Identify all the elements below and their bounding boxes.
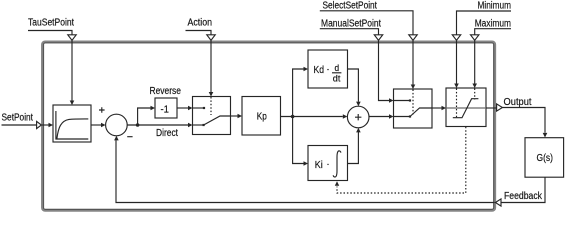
wire saturation to output port — [486, 107, 496, 109]
value Kd — [314, 65, 325, 76]
input port TauSetPoint — [68, 35, 76, 41]
svg-text:Output: Output — [504, 97, 532, 108]
wire Maximum drop — [474, 41, 476, 84]
wire filter to sum1 — [91, 124, 101, 126]
Kd fraction numerator d — [335, 63, 340, 73]
output port Output — [497, 104, 503, 111]
wire Minimum drop — [456, 41, 458, 84]
Kd dot operator — [327, 69, 328, 70]
svg-text:Minimum: Minimum — [478, 1, 512, 12]
wire -1 to switch1 — [177, 107, 188, 109]
block gain Kp — [242, 97, 281, 136]
switch2 lower contact tick — [409, 115, 411, 117]
svg-text:SelectSetPoint: SelectSetPoint — [323, 1, 378, 12]
wire sum1 output / Direct line — [127, 124, 188, 126]
sum1 minus sign — [127, 136, 132, 138]
svg-text:ManualSetPoint: ManualSetPoint — [321, 18, 381, 29]
wire Minimum label underline — [457, 11, 512, 35]
arrow into switch1 lower input — [188, 123, 193, 128]
wire sum2 to switch2 — [369, 116, 389, 118]
wire Action drop — [210, 41, 212, 96]
value G(s) — [537, 153, 554, 164]
svg-text:Ki: Ki — [315, 160, 323, 171]
Ki integral sign — [333, 151, 341, 177]
arrow into Kd — [304, 67, 309, 72]
wire SetPoint into filter — [42, 124, 49, 126]
arrow into Kp — [238, 114, 243, 119]
svg-text:TauSetPoint: TauSetPoint — [28, 18, 74, 29]
svg-text:Kp: Kp — [257, 112, 267, 123]
arrow into filter top — [70, 101, 75, 106]
input port Action — [207, 35, 215, 41]
wire reverse branch up to -1 — [138, 108, 151, 125]
value Kp — [257, 112, 267, 123]
wire branch up to Kd — [293, 69, 304, 117]
summing junction sum1 — [106, 114, 128, 136]
saturation min dotted — [456, 89, 458, 120]
wire ManualSetPoint label underline — [320, 29, 379, 35]
svg-text:Kd: Kd — [314, 65, 325, 76]
wire Maximum label underline — [475, 29, 511, 35]
value -1 — [161, 104, 170, 115]
filter axes — [56, 111, 88, 139]
wire Ki out to sum2 bottom — [348, 132, 359, 164]
wire TauSetPoint drop — [71, 41, 73, 104]
svg-text:dt: dt — [333, 74, 341, 84]
block gain -1 — [155, 98, 177, 118]
label Output — [504, 97, 532, 108]
node junction dot after sum1 — [136, 123, 140, 127]
arrow into sum1 bottom — [114, 136, 119, 141]
arrow into Ki — [304, 161, 309, 166]
svg-text:SetPoint: SetPoint — [2, 112, 34, 123]
arrow into saturation top right — [472, 84, 477, 89]
svg-text:Maximum: Maximum — [475, 18, 511, 29]
Kd fraction denominator dt — [333, 74, 341, 84]
switch1 lever — [204, 116, 231, 125]
arrow into sum2 bottom — [356, 128, 361, 133]
block derivative Kd d/dt — [308, 50, 348, 88]
saturation through line — [446, 107, 486, 109]
svg-text:d: d — [335, 63, 340, 73]
switch1 control dotted — [210, 97, 212, 115]
Kd fraction bar — [332, 72, 341, 74]
label Reverse — [150, 86, 182, 97]
input port SetPoint — [37, 121, 42, 128]
arrow into sum2 top — [356, 102, 361, 107]
Ki dot operator — [327, 164, 328, 165]
wire ManualSetPoint drop to switch2 upper input — [379, 41, 390, 101]
wire SetPoint lead — [2, 124, 37, 126]
switch1 lower input stub — [193, 124, 204, 126]
input port Feedback — [495, 199, 501, 206]
label Maximum — [475, 18, 511, 29]
arrow into -1 block — [151, 106, 156, 111]
svg-text:G(s): G(s) — [537, 153, 554, 164]
label ManualSetPoint — [321, 18, 381, 29]
block saturation — [446, 88, 486, 127]
arrow into switch2 lower input — [389, 114, 394, 119]
svg-text:-1: -1 — [161, 104, 170, 115]
switch1 upper contact tick — [203, 107, 205, 109]
arrow into sum1 — [101, 123, 106, 128]
label TauSetPoint — [28, 18, 74, 29]
input port SelectSetPoint — [409, 35, 417, 41]
label Feedback — [504, 191, 543, 202]
switch2 upper contact tick — [409, 99, 411, 101]
switch2 control dotted — [412, 90, 414, 115]
svg-text:Direct: Direct — [156, 128, 178, 139]
label SelectSetPoint — [323, 1, 378, 12]
wire Kd out to sum2 top — [348, 69, 359, 102]
switch2 lower input stub — [394, 116, 411, 118]
wire feedback rail inside box — [116, 140, 495, 202]
wire switch2 to saturation — [432, 107, 442, 109]
arrow into sum2 left — [343, 114, 348, 119]
wire SelectSetPoint label underline — [320, 11, 413, 35]
wire Action label underline — [186, 31, 212, 35]
svg-text:Feedback: Feedback — [504, 191, 543, 202]
dotted anti-windup from saturation to Ki — [337, 127, 466, 193]
saturation curve — [453, 99, 479, 118]
superblock outer box — [43, 42, 495, 210]
block switch1 (Direct/Reverse selector) — [193, 97, 231, 135]
sum1 plus sign — [99, 107, 105, 113]
wire TauSetPoint label underline — [28, 31, 72, 35]
switch1 upper input stub — [193, 107, 205, 109]
node junction dot after Kp — [291, 115, 295, 119]
svg-text:Action: Action — [188, 18, 213, 29]
block filter (first order lag) — [53, 105, 91, 142]
arrow into switch2 upper input — [389, 98, 394, 103]
label SetPoint — [2, 112, 34, 123]
arrow dotted into Ki bottom — [335, 181, 339, 186]
wire switch1 to Kp — [231, 115, 238, 117]
wire Kp output to sum2 — [281, 116, 343, 118]
superblock inner dark edge — [43, 43, 493, 210]
block integrator Ki — [308, 146, 348, 181]
arrow into G(s) top — [543, 133, 548, 138]
input port ManualSetPoint — [374, 35, 382, 41]
input port Minimum — [452, 35, 460, 41]
arrow into switch1 upper input — [188, 106, 193, 111]
saturation max dotted — [474, 89, 476, 100]
wire branch down to Ki — [293, 117, 304, 164]
switch1 lower contact tick — [203, 124, 205, 126]
wire SelectSetPoint drop — [412, 41, 414, 85]
summing junction sum2 — [347, 106, 369, 128]
wire G(s) to feedback port — [501, 177, 545, 202]
block switch2 (Manual/Auto selector) — [394, 89, 433, 128]
sum2 plus sign — [355, 114, 361, 120]
switch2 upper input stub — [394, 100, 411, 102]
arrow into switch2 top — [411, 85, 416, 90]
label Direct — [156, 128, 178, 139]
switch2 lever — [410, 108, 432, 117]
input port Maximum — [471, 35, 479, 41]
arrow into saturation top left — [454, 84, 459, 89]
svg-text:Reverse: Reverse — [150, 86, 182, 97]
arrow into saturation — [442, 106, 447, 111]
block plant G(s) — [525, 138, 564, 178]
filter exponential curve — [57, 119, 88, 139]
arrow into filter left — [49, 123, 54, 128]
arrow into switch1 top — [209, 92, 214, 97]
label Action — [188, 18, 213, 29]
label Minimum — [478, 1, 512, 12]
wire output to G(s) — [502, 108, 545, 133]
value Ki — [315, 160, 323, 171]
